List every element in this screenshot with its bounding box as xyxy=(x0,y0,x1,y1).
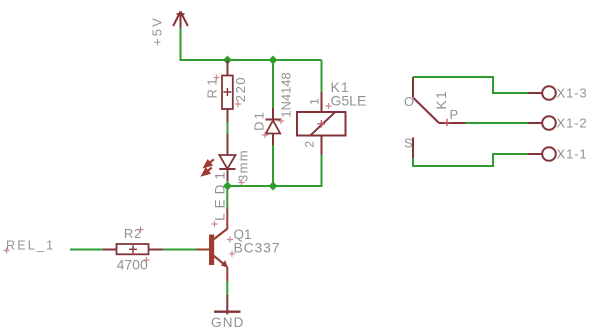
relay coil K1 xyxy=(297,92,346,156)
wire +5V drop xyxy=(180,28,182,60)
origin cross G5LE xyxy=(326,103,332,109)
label 220 xyxy=(233,76,248,103)
wire relay to bottom rail xyxy=(321,155,323,187)
origin cross LED1 xyxy=(212,221,218,227)
origin cross D1 xyxy=(262,132,268,138)
svg-text:+5V: +5V xyxy=(150,16,165,46)
origin cross 3mm xyxy=(239,180,245,186)
svg-text:REL_1: REL_1 xyxy=(6,239,55,253)
label LED1 xyxy=(212,167,227,221)
svg-text:X1-3: X1-3 xyxy=(557,86,588,101)
ground GND xyxy=(214,295,241,315)
wire relay drop xyxy=(321,60,323,93)
label +5V xyxy=(150,16,165,46)
origin cross R2 xyxy=(138,227,144,233)
terminal X1-2 xyxy=(528,116,556,130)
svg-text:4700: 4700 xyxy=(117,257,148,273)
svg-text:S: S xyxy=(404,136,413,151)
svg-text:1: 1 xyxy=(308,98,322,105)
svg-text:220: 220 xyxy=(233,76,248,103)
svg-text:X1-2: X1-2 xyxy=(557,116,588,131)
wire R2 to base xyxy=(163,249,197,251)
supply +5V xyxy=(173,12,188,29)
transistor Q1 xyxy=(197,208,229,282)
svg-text:P: P xyxy=(450,107,459,122)
wire D1 bottom segment xyxy=(272,145,274,186)
svg-text:2: 2 xyxy=(303,141,317,148)
wire LED to node xyxy=(227,181,229,187)
junction collector node xyxy=(223,182,232,191)
label D1 xyxy=(251,110,266,131)
svg-text:R1: R1 xyxy=(205,75,220,99)
junction R1 top xyxy=(223,56,232,65)
wire collector xyxy=(226,186,228,209)
junction D1 bottom xyxy=(269,182,278,191)
label K1 contact xyxy=(433,90,449,110)
origin cross REL_1 xyxy=(4,248,10,254)
origin cross Q1 xyxy=(227,237,233,243)
svg-text:X1-1: X1-1 xyxy=(557,147,588,162)
wire emitter xyxy=(226,281,228,296)
wire bottom rail xyxy=(228,185,322,187)
origin cross 4700 xyxy=(144,257,150,263)
pin number 1 xyxy=(308,98,322,105)
junction D1 top xyxy=(269,56,278,65)
svg-text:D1: D1 xyxy=(251,110,266,131)
label 1N4148 xyxy=(279,72,294,118)
wire D1 top segment xyxy=(272,60,274,109)
wire O to X1-3 xyxy=(413,77,528,93)
LED emission arrows xyxy=(203,159,214,175)
resistor R1 xyxy=(222,60,233,123)
wire top rail xyxy=(180,59,322,61)
svg-text:3mm: 3mm xyxy=(236,149,251,182)
wire R1 to LED xyxy=(227,122,229,135)
svg-text:1N4148: 1N4148 xyxy=(279,72,294,118)
terminal X1-1 xyxy=(528,147,556,161)
wire P to X1-2 xyxy=(466,122,529,124)
svg-text:R2: R2 xyxy=(124,226,142,241)
pin number 2 xyxy=(303,141,317,148)
svg-text:LED1: LED1 xyxy=(212,167,227,221)
label R1 xyxy=(205,75,220,99)
origin cross 1N4148 xyxy=(278,118,284,124)
svg-text:G5LE: G5LE xyxy=(331,93,367,109)
terminal X1-3 xyxy=(528,86,556,100)
svg-text:GND: GND xyxy=(211,315,245,330)
relay contact K1 right xyxy=(413,77,466,159)
origin cross 220 xyxy=(235,101,241,107)
svg-text:O: O xyxy=(404,94,414,109)
origin cross R1 xyxy=(214,75,220,81)
origin cross contact xyxy=(443,119,451,127)
resistor R2 xyxy=(103,244,164,254)
LED LED1 xyxy=(219,134,235,182)
svg-text:K1: K1 xyxy=(433,90,449,110)
diode D1 xyxy=(266,108,282,146)
svg-text:BC337: BC337 xyxy=(234,240,281,256)
origin cross BC337 xyxy=(229,251,235,257)
wire S to X1-1 xyxy=(413,154,528,166)
label 3mm xyxy=(236,149,251,182)
wire REL_1 xyxy=(70,249,104,251)
